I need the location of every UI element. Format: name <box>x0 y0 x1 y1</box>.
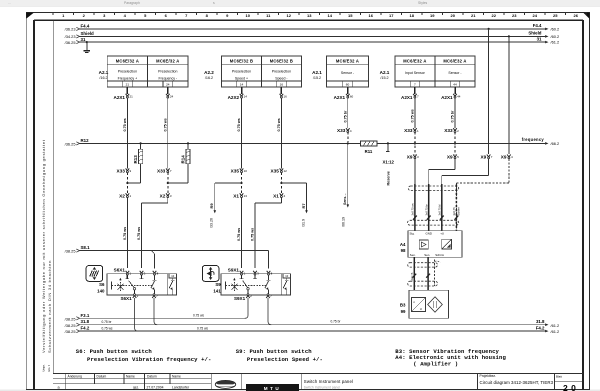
svg-text:/16.2: /16.2 <box>205 76 213 80</box>
svg-text:A2X1: A2X1 <box>441 95 453 100</box>
label F4.1 right + ref /60.2 <box>533 23 559 31</box>
cable 2 slashes <box>412 274 430 278</box>
cable core label 3x0.75 bl <box>438 204 442 215</box>
cable core label 3x0.75 br <box>424 204 428 215</box>
svg-text:16: 16 <box>284 94 288 98</box>
svg-text:S6: S6 <box>99 282 105 287</box>
toolbar strip (viewer chrome) <box>0 0 600 6</box>
junction sens wire on bus <box>347 142 349 144</box>
svg-text:A2.1: A2.1 <box>380 70 390 75</box>
svg-text:60: 60 <box>346 83 350 87</box>
branch wire to R7 /31.9 <box>280 182 308 227</box>
svg-text:X33: X33 <box>444 128 453 133</box>
svg-text:Styles: Styles <box>418 1 428 5</box>
title faint line2 <box>304 386 341 390</box>
wire gauge 0.75 ws (w2) <box>163 118 167 131</box>
title revision a <box>58 386 61 390</box>
label R12 <box>81 138 90 143</box>
svg-text:Urspr.: Urspr. <box>42 364 46 371</box>
junction R14/wire <box>167 182 169 184</box>
drawing area left edge <box>52 20 54 373</box>
svg-text:Preselection Vibration frequen: Preselection Vibration frequency +/- <box>87 356 211 363</box>
shield stub dashed <box>435 260 441 287</box>
legend A4 <box>395 354 506 361</box>
wire pin14 to S9X1:1 <box>241 97 243 268</box>
svg-text:+U: +U <box>440 232 444 236</box>
svg-text:S6X1: S6X1 <box>114 268 126 273</box>
svg-text:0.75 ws: 0.75 ws <box>277 118 281 131</box>
svg-text:A4: A4 <box>400 242 406 247</box>
svg-text:0.75 br: 0.75 br <box>331 319 342 323</box>
svg-text:S6X1: S6X1 <box>120 296 132 301</box>
svg-text:S9: S9 <box>215 282 221 287</box>
svg-text:/33.26: /33.26 <box>210 218 214 228</box>
svg-text:/38.25: /38.25 <box>65 249 76 254</box>
svg-text:Datum: Datum <box>97 374 107 378</box>
connector A2X1 pin 44 <box>441 94 461 100</box>
svg-text:A2.1: A2.1 <box>312 70 322 75</box>
label A2.2 /16.2 <box>204 70 214 80</box>
svg-text:MC6E/32 B: MC6E/32 B <box>270 59 293 64</box>
component box A2.1 MC6/E32 A (Sensor -) <box>327 56 369 87</box>
ref arrow left /38.25 (F3.1) <box>65 316 80 321</box>
svg-text:MTU: MTU <box>264 386 281 391</box>
svg-text:/66.2: /66.2 <box>551 141 560 146</box>
logo wordmark bar <box>246 384 299 391</box>
title Projektbez <box>480 374 554 385</box>
wire gauge 0.75 ws (F4.2 mid) <box>197 327 208 331</box>
branch S8.1 to S6X1:8 <box>151 251 154 269</box>
svg-text:0.75 ws: 0.75 ws <box>102 327 113 331</box>
resistor R11 inline <box>361 141 377 154</box>
margin disclaimer text col 2 <box>47 260 52 353</box>
svg-text:44: 44 <box>457 94 461 98</box>
svg-text:14: 14 <box>328 13 333 18</box>
connector X33 pin 4 (sens) <box>337 128 352 133</box>
net 31.8 wire <box>80 324 546 326</box>
svg-text:Preselection: Preselection <box>272 70 291 74</box>
connector X35 pin 10 <box>231 168 248 173</box>
svg-text:A2X1: A2X1 <box>114 95 126 100</box>
junction X33/X9 wire on bus (1) <box>414 142 416 144</box>
legend S9 line2 <box>247 356 323 363</box>
cable sheath marker bottom <box>408 220 459 225</box>
svg-text:S6: Push button switch: S6: Push button switch <box>76 348 153 355</box>
svg-text:MC6/E32 A: MC6/E32 A <box>336 59 359 64</box>
connector X2 pin 1 <box>119 193 131 198</box>
wire gauge 0.75 br (w7) <box>451 110 455 122</box>
wire pin60 Sens wire <box>347 97 349 205</box>
label F3.1 <box>81 313 90 318</box>
svg-text:/36.25: /36.25 <box>65 142 76 147</box>
svg-text:Ers. f.: Ers. f. <box>47 364 51 371</box>
svg-text:Vervielfältigung oder Weiterga: Vervielfältigung oder Weitergabe nur mit… <box>41 139 46 353</box>
wire gauge 0.75 ws (s6b) <box>137 227 141 240</box>
svg-text:Sen.: Sen. <box>410 253 416 257</box>
title date name <box>133 385 190 389</box>
svg-text:/31.9: /31.9 <box>301 219 305 227</box>
svg-text:/38.25: /38.25 <box>65 323 76 328</box>
svg-text:Sen.: Sen. <box>424 253 430 257</box>
svg-text:3x0.75: 3x0.75 <box>452 207 456 216</box>
svg-text:MC6/E32 A: MC6/E32 A <box>443 59 466 64</box>
connector X9 pin 5 <box>447 155 459 160</box>
wire X9:4 shield to A4 (dashed) <box>456 159 509 231</box>
junction R13/wire <box>126 182 128 184</box>
svg-text:X9: X9 <box>407 155 413 160</box>
label F4.2 right + ref /61.2 <box>536 325 559 334</box>
svg-text:Schirm: Schirm <box>435 253 445 257</box>
svg-text:F4.2: F4.2 <box>536 325 545 330</box>
svg-text:16: 16 <box>369 13 374 18</box>
ref arrow left /38.25 (31.8) <box>65 323 80 328</box>
connector pin 24 <box>166 94 174 99</box>
label B3 99 <box>400 302 406 313</box>
connector X2 pin 3 <box>160 193 172 198</box>
svg-text:/38.25: /38.25 <box>65 329 76 334</box>
svg-text:Landstorfer: Landstorfer <box>172 385 190 389</box>
ref arrow left /36.23 <box>65 27 80 32</box>
svg-text:R12: R12 <box>81 138 90 143</box>
svg-text:141: 141 <box>213 288 221 293</box>
svg-text:/36.25: /36.25 <box>65 40 76 45</box>
svg-text:0.75 ws: 0.75 ws <box>197 327 208 331</box>
svg-text:X35: X35 <box>271 168 280 173</box>
svg-text:2 0: 2 0 <box>563 383 576 391</box>
wire A4 Sen to B3 <box>413 257 415 290</box>
cable sheath marker 2 top <box>408 263 438 267</box>
net F3.1 wire <box>80 317 246 319</box>
connector A2X2 pin 14 <box>228 94 248 100</box>
legend S6 line2 <box>87 356 211 363</box>
svg-text:X9: X9 <box>480 155 486 160</box>
svg-text:Paragraph: Paragraph <box>124 1 140 5</box>
label F4.1 left <box>81 24 90 29</box>
svg-text:Reserve: Reserve <box>386 171 390 185</box>
fold triangle top-right <box>583 13 589 19</box>
svg-text:99: 99 <box>401 309 406 314</box>
ground symbol on net 31 <box>83 41 90 52</box>
svg-text:0.75 br: 0.75 br <box>102 320 113 324</box>
wire pin7 to A4 Sig <box>414 97 416 230</box>
wire S6X1:2 to F4.2 <box>135 298 138 331</box>
connector A2X1 pin 7 <box>401 94 419 100</box>
wire A4 Sen2 to B3 <box>427 257 429 290</box>
ref arrow left /38.25 (S8.1) <box>65 249 80 254</box>
svg-text:U: U <box>420 307 422 311</box>
svg-text:( Amplifier ): ( Amplifier ) <box>413 361 458 368</box>
bottom grey strip <box>0 390 600 391</box>
net F4.1 top bus wire <box>80 28 546 30</box>
svg-text:21: 21 <box>126 83 130 87</box>
title Blatt <box>556 375 562 379</box>
svg-text:B3: B3 <box>400 302 406 307</box>
junction Shield to X9 drop <box>508 35 510 154</box>
wire S6X1:7 to 31.8 <box>154 298 157 325</box>
wire gauge 0.75 ws (s9a) <box>237 228 241 241</box>
wire S9X1:2 to F3.1 end <box>245 298 248 318</box>
svg-text:24: 24 <box>170 94 174 98</box>
svg-text:X35: X35 <box>231 168 240 173</box>
svg-text:X33: X33 <box>117 168 126 173</box>
svg-text:Sens. -: Sens. - <box>343 193 347 205</box>
svg-text:Frequency +: Frequency + <box>118 77 138 81</box>
wire gauge 0.75 br (31.8 mid) <box>331 319 342 323</box>
wire pin16 to X1:4 jog <box>255 97 281 268</box>
wire gauge 0.75 ws (w4) <box>277 118 281 131</box>
junction X33/X9 wire on bus (2) <box>454 142 456 144</box>
connector X1 pin 4 <box>273 193 285 198</box>
svg-text:X2: X2 <box>119 193 125 198</box>
svg-text:Sensor -: Sensor - <box>341 71 355 75</box>
component box A2.1 MC6E/32 A (Preselection Frequency) <box>107 56 188 87</box>
svg-text:10: 10 <box>246 13 251 18</box>
stub X1:12 Reserve <box>382 142 394 185</box>
wire S9X1:7 to 31.8 <box>268 298 271 325</box>
svg-text:16: 16 <box>280 83 284 87</box>
legend A4 line2 <box>413 361 458 368</box>
svg-text:17: 17 <box>389 13 394 18</box>
svg-text:Projektbez.: Projektbez. <box>480 374 497 378</box>
svg-text:MC6/E32 A: MC6/E32 A <box>403 59 426 64</box>
wire gauge 0.75 ws (w6) <box>411 109 415 122</box>
svg-text:0.75 ws: 0.75 ws <box>411 109 415 122</box>
svg-text:31: 31 <box>537 36 542 41</box>
svg-text:Datum: Datum <box>147 374 157 378</box>
svg-text:MC6E/32 A: MC6E/32 A <box>116 59 139 64</box>
svg-text:Switch Instrument panel: Switch Instrument panel <box>304 386 341 390</box>
svg-text:GND: GND <box>426 232 432 236</box>
wire X9:7 to A4 +U <box>442 159 489 231</box>
svg-text:S9X1: S9X1 <box>234 296 246 301</box>
resistor R13 <box>127 142 142 183</box>
svg-text:21: 21 <box>471 13 476 18</box>
svg-text:Speed +: Speed + <box>235 77 248 81</box>
label A2.1 /16.2 <box>99 70 109 80</box>
svg-text:Shield: Shield <box>81 31 94 36</box>
svg-text:15: 15 <box>348 13 353 18</box>
ref arrow left /38.25 (F4.2) <box>65 329 80 334</box>
svg-text:X1: X1 <box>233 193 239 198</box>
svg-text:/61.2: /61.2 <box>551 329 560 334</box>
svg-text:X9: X9 <box>447 155 453 160</box>
branch S8.1 to S9X1:8 <box>268 251 270 269</box>
svg-text:3x0.75 bl: 3x0.75 bl <box>438 204 442 215</box>
cable wires thick segment <box>415 184 457 231</box>
svg-text:0.75 ws: 0.75 ws <box>193 314 204 318</box>
svg-text:0.75 br: 0.75 br <box>343 110 347 122</box>
svg-text:R11: R11 <box>365 149 373 154</box>
net 31 top bus wire <box>80 41 546 43</box>
ref arrow left /36.25 <box>65 40 80 45</box>
svg-text:140: 140 <box>97 288 105 293</box>
connector X9 pin 7 <box>480 155 492 160</box>
svg-text:Name: Name <box>172 374 181 378</box>
net R12 frequency bus <box>80 142 546 144</box>
svg-text:Sensor -: Sensor - <box>448 71 462 75</box>
svg-text:13: 13 <box>244 194 248 198</box>
svg-text:S8.1: S8.1 <box>81 245 91 250</box>
svg-text:19: 19 <box>430 13 435 18</box>
svg-text:Preselection: Preselection <box>158 70 177 74</box>
label F4.2 left + gauge <box>81 326 113 331</box>
svg-text:A2.1: A2.1 <box>99 70 109 75</box>
wire gauge 0.75 br (w5) <box>343 110 347 122</box>
svg-text:/34.23: /34.23 <box>65 34 76 39</box>
electronic unit A4 <box>408 231 462 258</box>
cable sheath marker 2 bottom <box>408 281 438 286</box>
branch wire to R9 /33.26 <box>209 182 242 228</box>
svg-text:Schutzvermerk nach DIN 34 beac: Schutzvermerk nach DIN 34 beachten <box>47 260 52 353</box>
svg-text:14: 14 <box>240 83 244 87</box>
wire gauge 0.75 ws (w1) <box>123 118 127 131</box>
svg-text:0.75 ws: 0.75 ws <box>163 118 167 131</box>
legend S6 <box>76 348 153 355</box>
label A4 98 <box>400 242 406 253</box>
wire gauge 0.75 ws (s6a) <box>123 227 127 240</box>
svg-text:12: 12 <box>287 13 292 18</box>
margin small text <box>42 364 51 371</box>
label 31.8 right + ref /61.2 <box>536 319 559 328</box>
ref arrow left /36.25 (R12) <box>65 142 80 147</box>
label A2.1 /15.2 (second) <box>380 70 390 80</box>
label 31.8 left + gauge <box>81 319 113 324</box>
svg-text:7: 7 <box>414 83 416 87</box>
resistor R14 <box>168 142 190 183</box>
svg-text:Name: Name <box>126 374 135 378</box>
svg-text:R7: R7 <box>301 203 306 209</box>
svg-text:frequency: frequency <box>522 137 545 142</box>
svg-text:Schirm: Schirm <box>457 206 461 215</box>
svg-text:/15.2: /15.2 <box>313 76 321 80</box>
label 31 left <box>81 37 86 42</box>
ref arrow left /34.23 <box>65 34 80 39</box>
svg-text:F4.4: F4.4 <box>533 23 542 28</box>
svg-text:31.8: 31.8 <box>536 319 545 324</box>
svg-text:s: s <box>213 1 215 5</box>
cable 2 label <box>410 272 414 280</box>
connector X35 pin 12 <box>271 168 288 173</box>
svg-text:27.07.2004: 27.07.2004 <box>147 385 164 389</box>
label Shield right + ref /60.2 <box>528 31 559 39</box>
svg-text:...: ... <box>8 1 11 5</box>
svg-text:20: 20 <box>451 13 456 18</box>
cable slashes <box>413 216 458 220</box>
connector X33 pin 7 <box>157 168 172 173</box>
connector A2X1 pin 21 <box>114 94 134 100</box>
svg-text:MC6E/32 A: MC6E/32 A <box>156 59 179 64</box>
box pin stubs (thick) <box>127 87 455 94</box>
component box A2.1 MC6/E32 A (Input Sensor / Sensor -) <box>395 56 475 87</box>
svg-text:0.75 ws: 0.75 ws <box>237 118 241 131</box>
svg-text:26: 26 <box>574 13 579 18</box>
svg-text:21: 21 <box>130 94 134 98</box>
svg-text:31.8: 31.8 <box>81 319 90 324</box>
svg-text:0.75 br: 0.75 br <box>451 110 455 122</box>
wire gauge 0.75 ws (w3) <box>237 118 241 131</box>
svg-text:Änderung: Änderung <box>68 374 82 378</box>
legend B3 <box>395 348 499 355</box>
junction F4.1 to X9 drop <box>488 28 490 154</box>
svg-text:24: 24 <box>166 83 170 87</box>
wire pin44 to A4 GND <box>429 97 455 230</box>
wire gauge 0.75 ws (F3.1 mid) <box>193 314 204 318</box>
title page number 20 <box>563 383 576 391</box>
svg-text:14: 14 <box>244 94 248 98</box>
svg-text:X9: X9 <box>501 155 507 160</box>
label A2.1 /15.2 (first) <box>312 70 322 80</box>
svg-text:0.75 ws: 0.75 ws <box>237 228 241 241</box>
margin disclaimer text col 1 <box>41 139 46 353</box>
svg-text:Switch Instrument panel: Switch Instrument panel <box>304 379 353 384</box>
svg-text:Preselection: Preselection <box>118 70 137 74</box>
svg-text:Frequency -: Frequency - <box>158 77 178 81</box>
net Shield top bus wire <box>80 35 546 37</box>
wire gauge 0.75 ws (s9b) <box>251 228 255 241</box>
connector X9 pin 4 <box>501 155 513 160</box>
wire pin24 to X2:3 jog <box>142 97 168 268</box>
svg-text:F3.1: F3.1 <box>81 313 90 318</box>
ruler band <box>53 13 586 19</box>
svg-text:F4.2: F4.2 <box>81 326 90 331</box>
svg-text:24: 24 <box>533 13 538 18</box>
label Sens - and arrow /66.19 <box>342 193 350 227</box>
title block headers <box>68 374 181 378</box>
connector pin 16 <box>280 94 288 99</box>
svg-text:22: 22 <box>492 13 497 18</box>
svg-text:13: 13 <box>307 13 312 18</box>
svg-text:3x0.75 ws: 3x0.75 ws <box>411 203 415 216</box>
push button switch S6 (Preselection Vibration frequency) <box>86 266 176 302</box>
svg-text:/38.25: /38.25 <box>65 316 76 321</box>
svg-text:X33: X33 <box>337 128 346 133</box>
svg-text:60: 60 <box>350 94 354 98</box>
component box A2.2 MC6E/32 B (Preselection Speed) <box>222 56 302 87</box>
svg-text:A2X1: A2X1 <box>334 95 346 100</box>
cable core label 3x0.75 ws <box>411 203 415 216</box>
fold triangle top-left <box>26 13 34 19</box>
svg-text:0.75 ws: 0.75 ws <box>137 227 141 240</box>
svg-text:12: 12 <box>284 169 288 173</box>
svg-text:3x0.75 br: 3x0.75 br <box>424 204 428 215</box>
connector X33 pin 2 <box>444 128 459 133</box>
svg-text:0.75 ws: 0.75 ws <box>123 118 127 131</box>
svg-text:/66.19: /66.19 <box>342 217 346 227</box>
svg-text:/61.2: /61.2 <box>551 40 560 45</box>
svg-text:Blatt: Blatt <box>556 375 562 379</box>
cable sheath marker top <box>408 186 458 191</box>
svg-text:23: 23 <box>512 13 517 18</box>
legend S9 <box>236 348 313 355</box>
svg-text:18: 18 <box>410 13 415 18</box>
svg-text:44: 44 <box>453 83 457 87</box>
svg-text:A2.2: A2.2 <box>204 70 214 75</box>
svg-text:R9: R9 <box>209 203 214 209</box>
svg-text:0.75 ws: 0.75 ws <box>123 227 127 240</box>
svg-text:/60.2: /60.2 <box>551 34 560 39</box>
connector X33 pin 9 <box>117 168 132 173</box>
svg-text:R14: R14 <box>181 155 186 164</box>
svg-text:S9X1: S9X1 <box>228 268 240 273</box>
connector X9 pin 3 <box>407 155 419 160</box>
svg-text:25: 25 <box>553 13 558 18</box>
connector X1 pin 13 <box>233 193 247 198</box>
logo MTU oval <box>215 380 235 388</box>
label S8.1 <box>81 245 91 250</box>
sensor B3 vibration <box>409 290 449 318</box>
svg-text:X1:12: X1:12 <box>382 159 394 164</box>
push button switch S9 (Preselection Speed) <box>202 266 290 302</box>
